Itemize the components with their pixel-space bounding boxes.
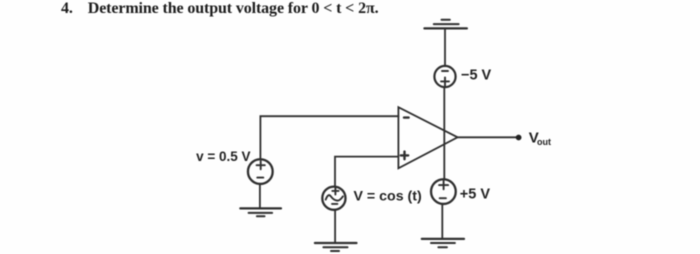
wire: AC source to op-amp non-inverting input [335, 157, 398, 187]
svg-text:out: out [537, 137, 551, 147]
ground GND left [240, 208, 281, 216]
svg-text:+5 V: +5 V [460, 187, 491, 203]
label Vout [529, 129, 551, 147]
node Vout (junction dot) [516, 135, 522, 141]
wire: supply rail from -5V source through op-amp to +5V source [443, 87, 445, 179]
problem text [61, 0, 378, 18]
wire: top ground to -5V source [444, 28, 446, 66]
AC source V = cos(t) [322, 187, 345, 210]
wire: AC source to middle ground [334, 210, 336, 243]
wire: op-amp output to Vout node [458, 136, 519, 138]
voltage source v = 0.5 V [248, 159, 273, 184]
ground GND top (inverted, above -5V supply) [424, 20, 467, 29]
op-amp U1 [398, 107, 457, 168]
svg-text:−5 V: −5 V [461, 68, 492, 84]
ground GND middle [315, 243, 357, 251]
wire: v source to op-amp inverting input [260, 116, 398, 159]
svg-text:V = cos (t): V = cos (t) [354, 189, 422, 205]
svg-text:v = 0.5 V: v = 0.5 V [196, 149, 250, 164]
wire: v source to left ground [259, 184, 261, 208]
voltage source V2 (+5 V) [431, 179, 456, 204]
voltage source V1 (-5 V) [434, 66, 455, 87]
ground GND right [422, 239, 464, 247]
wire: +5V source to right ground [441, 204, 443, 239]
